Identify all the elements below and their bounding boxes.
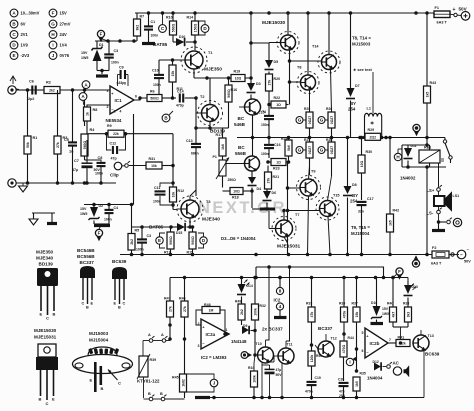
svg-text:R42: R42 <box>393 209 400 213</box>
svg-text:R27: R27 <box>304 138 310 142</box>
diode D7 <box>346 13 360 138</box>
svg-text:R6: R6 <box>150 90 155 94</box>
svg-text:D4: D4 <box>257 187 262 191</box>
resistor R5 <box>128 229 139 255</box>
svg-text:MJE350: MJE350 <box>204 67 222 73</box>
svg-text:T11: T11 <box>287 343 293 347</box>
svg-text:C14: C14 <box>177 90 184 94</box>
transistor T6 MJE15030 <box>262 13 299 105</box>
legend test point H = 24V <box>49 31 67 39</box>
package label BC639 <box>112 259 127 264</box>
legend test point G = 27mV <box>49 20 71 28</box>
wire comparator supply rail <box>170 276 408 280</box>
diode D3 <box>247 78 261 99</box>
wire bat85 row <box>132 225 172 229</box>
resistor R26 <box>326 107 335 138</box>
svg-text:MJ15004: MJ15004 <box>89 338 109 343</box>
resistor R28 <box>326 138 335 177</box>
svg-text:T8, T14 =: T8, T14 = <box>352 36 371 41</box>
svg-text:G: G <box>298 148 302 153</box>
svg-text:IC2: IC2 <box>274 298 281 303</box>
wire comparator mid rail <box>254 265 383 279</box>
svg-text:R1: R1 <box>33 136 38 140</box>
resistor R21 <box>265 160 280 189</box>
svg-text:470k: 470k <box>342 311 346 319</box>
svg-text:C: C <box>46 316 49 321</box>
transistor T1 MJE350 <box>181 47 222 73</box>
svg-text:-2V3: -2V3 <box>21 53 30 58</box>
svg-text:560Ω: 560Ω <box>171 24 175 33</box>
resistor R32 <box>252 278 266 331</box>
svg-text:R20: R20 <box>274 77 281 81</box>
ground symbol input <box>19 183 28 192</box>
svg-text:F2: F2 <box>432 246 436 250</box>
capacitor C19 <box>305 376 321 398</box>
node test pin T10 base <box>241 352 252 359</box>
svg-text:6: 6 <box>362 349 364 353</box>
svg-text:B: B <box>39 397 42 402</box>
svg-text:27k: 27k <box>183 306 187 312</box>
resistor R14 <box>187 13 199 35</box>
svg-text:2k2: 2k2 <box>130 239 134 245</box>
capacitor C9 comp <box>118 66 129 87</box>
svg-text:KTY81-122: KTY81-122 <box>137 379 160 384</box>
wire T1 collector <box>194 69 209 80</box>
svg-text:T12: T12 <box>331 337 337 341</box>
legend test point C = 2V1 <box>10 31 28 39</box>
wire corner comparator <box>407 278 409 282</box>
resistor R13 <box>164 227 174 255</box>
svg-text:4: 4 <box>279 304 282 309</box>
svg-text:T1: T1 <box>208 51 212 55</box>
resistor R19 <box>231 70 245 82</box>
svg-text:470p: 470p <box>176 104 184 108</box>
note T9 T15 <box>351 225 370 236</box>
svg-text:R12: R12 <box>178 189 185 193</box>
capacitor C8 <box>95 156 106 183</box>
transistor T8 <box>290 13 320 112</box>
svg-text:MJE15030: MJE15030 <box>34 328 57 333</box>
resistor R8 <box>84 107 98 134</box>
svg-text:R25: R25 <box>304 107 310 111</box>
svg-text:J: J <box>213 381 216 386</box>
svg-text:+: + <box>453 7 456 13</box>
svg-text:C20: C20 <box>338 378 344 382</box>
svg-text:254: 254 <box>348 107 356 112</box>
node J test point <box>187 374 218 392</box>
svg-text:MJ15003: MJ15003 <box>89 331 109 336</box>
svg-text:R16: R16 <box>231 88 238 92</box>
svg-text:1W5: 1W5 <box>382 312 389 316</box>
svg-text:2k2: 2k2 <box>49 89 55 93</box>
resistor R4 <box>81 90 95 156</box>
svg-text:R19: R19 <box>234 70 241 74</box>
svg-text:33n: 33n <box>358 210 364 214</box>
package TO-126 <box>37 268 58 321</box>
svg-text:T10: T10 <box>256 342 262 346</box>
svg-text:BC639: BC639 <box>425 352 440 357</box>
svg-text:T13: T13 <box>428 334 434 338</box>
svg-text:1n: 1n <box>69 150 74 154</box>
svg-text:560Ω: 560Ω <box>150 97 159 101</box>
package label MJE15030 MJE15031 <box>34 328 57 340</box>
svg-text:E: E <box>90 378 93 383</box>
svg-text:MJE15030: MJE15030 <box>262 20 286 26</box>
svg-text:0V76: 0V76 <box>60 53 70 58</box>
resistor R20 <box>266 72 281 107</box>
svg-text:T9, T15 =: T9, T15 = <box>351 225 370 230</box>
svg-text:2k2: 2k2 <box>240 309 244 315</box>
node A lower <box>79 93 87 105</box>
wire relay bottom <box>402 165 446 254</box>
svg-text:15V: 15V <box>80 207 87 211</box>
wire +50V top rail <box>135 11 433 15</box>
svg-text:47µ: 47µ <box>72 168 78 172</box>
svg-text:1k5: 1k5 <box>355 381 359 387</box>
capacitor C12 <box>110 142 118 161</box>
svg-text:15k: 15k <box>355 312 359 318</box>
svg-text:I: I <box>52 43 53 48</box>
node test pin rail <box>412 255 419 267</box>
svg-text:A: A <box>148 333 151 337</box>
svg-text:C4: C4 <box>114 206 119 210</box>
svg-text:BC337: BC337 <box>318 326 333 331</box>
speaker LS1 <box>434 191 459 210</box>
svg-text:50V: 50V <box>276 373 283 377</box>
svg-text:R28: R28 <box>326 138 332 142</box>
svg-text:C5: C5 <box>64 138 69 142</box>
svg-text:C13: C13 <box>186 139 193 143</box>
svg-text:0Ω27: 0Ω27 <box>308 116 312 124</box>
svg-text:D10: D10 <box>179 35 185 39</box>
svg-text:R15: R15 <box>187 251 194 255</box>
svg-text:C3: C3 <box>147 234 152 238</box>
svg-text:R32: R32 <box>260 304 266 308</box>
svg-text:0Ω27: 0Ω27 <box>330 146 334 154</box>
svg-text:560Ω: 560Ω <box>83 141 87 150</box>
resistor R2 <box>44 81 110 94</box>
resistor R27 <box>304 138 313 176</box>
svg-text:R33: R33 <box>306 302 312 306</box>
svg-text:47p: 47p <box>111 157 118 161</box>
op-amp IC2b <box>362 328 392 358</box>
svg-text:R17: R17 <box>216 133 223 137</box>
svg-text:470n: 470n <box>305 390 313 394</box>
ground bar D2 C4 <box>94 224 110 226</box>
svg-text:F: F <box>52 11 55 16</box>
legend test point E = -2V3 <box>10 52 30 60</box>
svg-text:BAT85: BAT85 <box>153 42 168 47</box>
svg-text:50k: 50k <box>26 142 30 148</box>
resistor R46 <box>179 278 188 399</box>
transistor T10 <box>256 267 274 363</box>
wire IC2a inputs <box>170 310 202 343</box>
capacitor C11 <box>153 181 175 207</box>
wire to T10 base <box>253 331 257 372</box>
transistor T7 MJE15031 <box>269 209 301 250</box>
node A upper <box>82 81 90 89</box>
svg-text:MJE340: MJE340 <box>202 217 220 223</box>
svg-text:LS-: LS- <box>427 211 434 216</box>
svg-text:D5: D5 <box>274 60 279 64</box>
svg-text:100n: 100n <box>151 34 159 38</box>
op-amp IC2a <box>198 319 230 349</box>
temperature sensor R39 KTY81-122 <box>137 354 160 398</box>
resistor R33 <box>306 278 315 347</box>
svg-text:100n: 100n <box>153 83 161 87</box>
svg-text:C11: C11 <box>154 186 160 190</box>
legend test point J = 0V76 <box>49 52 70 60</box>
svg-text:R22: R22 <box>274 96 281 100</box>
terminal -50V <box>449 247 471 264</box>
svg-text:∗: ∗ <box>370 121 374 127</box>
resistor R12 <box>170 166 185 210</box>
svg-text:2V1: 2V1 <box>21 32 29 37</box>
resistor R49 <box>235 300 245 326</box>
svg-text:24V: 24V <box>60 32 68 37</box>
svg-text:∗ see text: ∗ see text <box>353 67 373 72</box>
legend test point I = 1V4 <box>49 41 67 49</box>
capacitor C20 <box>338 378 349 399</box>
svg-text:6A3 T: 6A3 T <box>437 21 448 25</box>
svg-text:15k: 15k <box>171 71 175 77</box>
svg-text:10Ω: 10Ω <box>360 160 364 167</box>
svg-text:27k: 27k <box>267 80 271 86</box>
relay contact <box>439 138 453 187</box>
svg-text:T14: T14 <box>312 45 319 49</box>
svg-text:0Ω27: 0Ω27 <box>308 146 312 154</box>
resistor R44 <box>340 336 354 381</box>
svg-text:R37: R37 <box>352 302 358 306</box>
svg-text:L1: L1 <box>367 107 371 111</box>
svg-text:C: C <box>82 302 85 306</box>
note T8 T14 <box>352 36 371 47</box>
svg-text:100n: 100n <box>95 172 103 176</box>
svg-text:D12: D12 <box>373 360 379 364</box>
zener D16 <box>371 278 390 324</box>
inductor L1 <box>363 72 384 139</box>
transistor T9 <box>286 158 321 255</box>
svg-text:15V: 15V <box>382 307 389 311</box>
svg-text:27mV: 27mV <box>60 22 71 27</box>
wire T10 emitter <box>261 362 263 398</box>
note IC2 type <box>201 355 227 360</box>
resistor R11 <box>169 60 183 100</box>
svg-text:1W5: 1W5 <box>80 212 87 216</box>
resistor R23 <box>268 159 290 171</box>
op-amp IC1 <box>106 82 138 124</box>
capacitor C1 <box>144 13 158 42</box>
svg-text:1N4004: 1N4004 <box>367 376 383 381</box>
package TO-92 a <box>80 266 95 310</box>
svg-text:6: 6 <box>135 95 137 99</box>
capacitor C10 <box>152 60 164 100</box>
svg-text:1N4148: 1N4148 <box>231 339 247 344</box>
svg-text:R24: R24 <box>281 137 287 141</box>
wire feedback <box>87 114 173 205</box>
svg-text:R10: R10 <box>166 16 173 20</box>
resistor R6 <box>147 90 176 102</box>
svg-text:1k5: 1k5 <box>388 220 392 226</box>
svg-text:D1: D1 <box>99 43 104 47</box>
svg-text:F: F <box>98 231 101 236</box>
resistor R34 <box>248 366 258 398</box>
wire pin2 junction <box>168 323 172 327</box>
svg-text:C12: C12 <box>110 142 117 146</box>
svg-text:R44: R44 <box>348 336 354 340</box>
resistor R50 <box>308 345 322 380</box>
capacitor C6 <box>19 80 44 102</box>
svg-text:5: 5 <box>362 331 364 335</box>
trimmer P1 <box>213 155 237 188</box>
svg-text:LS+: LS+ <box>427 188 435 193</box>
svg-text:T7: T7 <box>295 213 299 217</box>
resistor R15 <box>187 225 197 254</box>
legend test point A = 10...30mV <box>10 9 40 17</box>
clip output <box>110 161 130 177</box>
chassis ground symbol <box>29 213 57 225</box>
speaker terminal LS- <box>427 206 442 222</box>
svg-text:R23: R23 <box>273 167 280 171</box>
resistor R31 <box>129 134 175 169</box>
node G1 <box>296 117 306 124</box>
svg-text:D6: D6 <box>272 191 277 195</box>
svg-text:MJ15004: MJ15004 <box>351 231 370 236</box>
svg-text:D3: D3 <box>256 82 261 86</box>
svg-text:5k6: 5k6 <box>287 145 291 151</box>
svg-text:R38: R38 <box>403 302 409 306</box>
svg-text:E: E <box>12 53 15 58</box>
sensor connector A <box>143 333 170 356</box>
svg-text:P1: P1 <box>213 155 217 159</box>
ground bar bottom rail <box>185 396 211 400</box>
svg-text:2: 2 <box>107 105 109 109</box>
svg-text:R26: R26 <box>326 107 332 111</box>
svg-text:D9: D9 <box>243 324 247 328</box>
terminal +50V <box>450 7 470 21</box>
input terminal <box>8 86 19 94</box>
resistor R47 <box>164 278 174 341</box>
diode D12 <box>357 360 392 381</box>
svg-text:25V: 25V <box>339 394 346 398</box>
svg-text:2Ω2: 2Ω2 <box>370 135 377 139</box>
svg-text:8: 8 <box>279 289 282 294</box>
node G3 <box>296 147 306 154</box>
svg-text:E: E <box>52 397 55 402</box>
speaker ground <box>432 218 462 231</box>
node F test point lower <box>95 226 102 242</box>
resistor R18 <box>223 188 254 200</box>
node G4 <box>318 147 328 154</box>
node C test point <box>159 13 167 32</box>
svg-text:27k: 27k <box>56 142 60 148</box>
wire IC1 pin2 <box>87 105 110 107</box>
svg-text:J: J <box>52 53 55 58</box>
note D3 D6 <box>221 236 256 241</box>
node G2 <box>318 117 328 124</box>
svg-text:IC2a: IC2a <box>206 332 216 337</box>
svg-text:1k8: 1k8 <box>221 144 225 150</box>
svg-text:R29: R29 <box>368 128 375 132</box>
capacitor C4 <box>104 205 118 225</box>
capacitor C14 <box>176 90 198 108</box>
diode D9 <box>229 324 257 344</box>
led D13 <box>404 281 418 307</box>
diode D10 BAT85 <box>153 35 197 50</box>
svg-text:B: B <box>160 392 163 396</box>
diode D5 <box>249 13 278 78</box>
svg-text:100n: 100n <box>104 218 112 222</box>
svg-text:560Ω: 560Ω <box>191 236 195 245</box>
svg-text:546B: 546B <box>234 122 246 127</box>
svg-text:R30: R30 <box>366 150 373 154</box>
svg-text:47µ: 47µ <box>276 368 282 372</box>
svg-text:R18: R18 <box>232 196 239 200</box>
svg-text:10k: 10k <box>151 164 157 168</box>
wire R4 C7 node <box>85 140 102 162</box>
wire IC1 out <box>134 96 147 100</box>
resistor R29 <box>365 128 381 141</box>
svg-text:MJE15031: MJE15031 <box>277 244 301 250</box>
node F test point <box>97 30 108 42</box>
svg-text:BC: BC <box>238 145 245 150</box>
svg-text:1k: 1k <box>85 112 89 116</box>
diode D15 BAT85 <box>149 223 190 235</box>
svg-text:1W5: 1W5 <box>81 56 88 60</box>
resistor R17 <box>216 128 227 156</box>
package label MJE350 MJE340 BD139 <box>36 250 54 267</box>
package label MJ15003 MJ15004 <box>89 331 109 343</box>
wire 15V node <box>95 39 137 43</box>
svg-text:R34: R34 <box>248 366 254 370</box>
svg-text:1N4002: 1N4002 <box>400 176 416 181</box>
svg-text:C: C <box>46 401 49 406</box>
svg-text:560Ω: 560Ω <box>169 236 173 245</box>
svg-text:R39: R39 <box>150 358 157 362</box>
svg-text:1: 1 <box>114 110 116 114</box>
ic2 power pins <box>274 276 287 318</box>
svg-text:C17: C17 <box>367 197 374 201</box>
speaker terminal LS+ <box>427 185 442 193</box>
svg-text:50V: 50V <box>459 7 468 12</box>
led D14 <box>237 278 253 305</box>
resistor R35 <box>353 372 366 398</box>
svg-text:R36: R36 <box>339 302 345 306</box>
svg-text:2x BC337: 2x BC337 <box>262 327 283 332</box>
svg-text:22k: 22k <box>113 132 119 136</box>
svg-text:10Ω: 10Ω <box>235 77 242 81</box>
svg-text:D11: D11 <box>411 144 417 148</box>
resistor R42 <box>387 138 400 255</box>
wire relay top <box>402 138 430 168</box>
zener D2 <box>80 204 103 224</box>
svg-text:C10: C10 <box>152 69 159 73</box>
svg-text:10k: 10k <box>171 192 175 198</box>
svg-text:F1: F1 <box>435 6 439 10</box>
wire T2 emitter row <box>194 122 222 130</box>
svg-text:27k: 27k <box>266 178 270 184</box>
svg-text:MJE350: MJE350 <box>36 250 54 255</box>
ground bar D1 C3 <box>96 69 109 76</box>
svg-text:F: F <box>398 269 401 274</box>
svg-text:Clip: Clip <box>110 173 119 178</box>
package TO-3 <box>73 347 133 392</box>
svg-text:B: B <box>101 386 104 391</box>
wire R40 R38 join <box>393 327 408 343</box>
svg-text:E: E <box>158 238 161 243</box>
transistor T4 BC546B <box>234 99 266 156</box>
svg-text:R5: R5 <box>135 229 140 233</box>
